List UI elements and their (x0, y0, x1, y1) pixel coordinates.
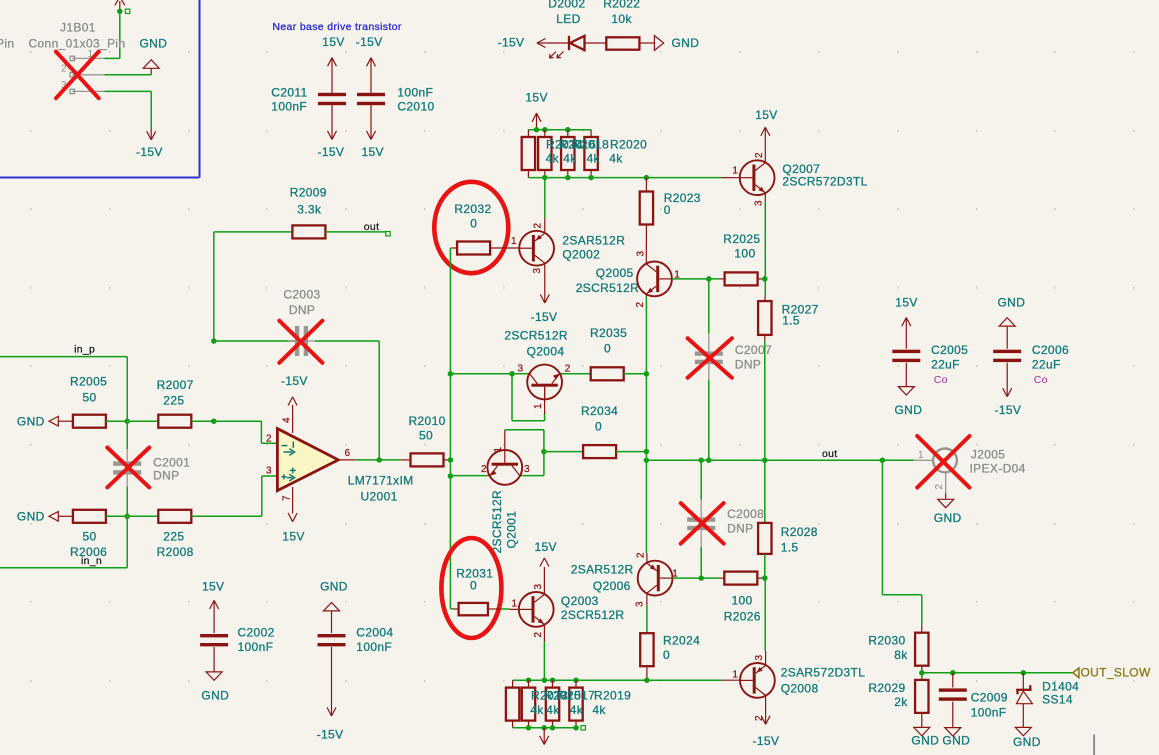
svg-text:6: 6 (345, 448, 351, 459)
svg-text:100: 100 (732, 594, 753, 608)
svg-text:2: 2 (481, 464, 487, 475)
svg-text:C2002: C2002 (238, 625, 275, 639)
svg-text:R2022: R2022 (603, 0, 640, 10)
junction (211, 338, 217, 344)
svg-text:4k: 4k (587, 151, 601, 165)
svg-text:C2007: C2007 (735, 343, 772, 357)
wire (450, 475, 487, 477)
-15V power symbol (136, 128, 163, 159)
svg-text:DNP: DNP (289, 303, 315, 317)
svg-text:1: 1 (493, 447, 504, 453)
DNP cross over J1B01 (56, 52, 99, 99)
transistor Q2003 (511, 584, 553, 642)
DNP cross over C2008 (681, 503, 724, 543)
svg-text:C2005: C2005 (931, 343, 968, 357)
svg-text:R2005: R2005 (70, 375, 107, 389)
svg-text:-15V: -15V (136, 145, 163, 159)
junction (698, 575, 704, 581)
svg-text:GND: GND (320, 579, 348, 593)
wire (105, 91, 152, 128)
junction (509, 371, 515, 377)
svg-text:2: 2 (635, 302, 646, 308)
svg-text:2: 2 (266, 434, 272, 445)
svg-text:R2026: R2026 (724, 610, 761, 624)
junction (541, 449, 547, 455)
resistor R2026 (719, 572, 765, 624)
resistor R2014 (522, 130, 535, 178)
wire (645, 460, 647, 553)
svg-text:R2035: R2035 (590, 326, 627, 340)
GND power symbol (540, 728, 549, 745)
labels Q2004 (504, 329, 568, 359)
power symbol top (clipped arrow) (115, 0, 125, 11)
resistor R2031 (450, 567, 518, 616)
-15V label (318, 145, 345, 159)
wire in_p (0, 357, 127, 422)
wire in_n (0, 516, 127, 568)
svg-text:1: 1 (918, 450, 924, 461)
svg-text:22uF: 22uF (1032, 358, 1061, 372)
junction (644, 371, 650, 377)
sheet border (0, 0, 200, 178)
svg-text:R2008: R2008 (157, 545, 194, 559)
svg-text:4k: 4k (530, 703, 544, 717)
labels Q2001 (490, 490, 519, 554)
junction (706, 276, 712, 282)
svg-text:225: 225 (163, 393, 184, 407)
transistor Q2004 (517, 364, 570, 415)
svg-text:J1B01: J1B01 (60, 21, 96, 35)
capacitor C2011 (271, 58, 346, 140)
svg-text:Q2002: Q2002 (562, 247, 600, 261)
svg-text:C2011: C2011 (271, 86, 307, 100)
svg-text:15V: 15V (322, 35, 344, 49)
junction (124, 514, 130, 520)
svg-text:50: 50 (419, 429, 433, 443)
wire bank bottom bus (513, 727, 579, 729)
wire (378, 341, 380, 460)
capacitor C2007 (DNP) (695, 334, 772, 460)
svg-text:C2010: C2010 (397, 100, 434, 114)
net anchor square (581, 726, 585, 730)
svg-text:1: 1 (732, 670, 738, 681)
labels Q2007 (782, 162, 867, 189)
svg-text:GND: GND (17, 414, 45, 428)
svg-text:1.5: 1.5 (781, 541, 799, 555)
capacitor C2003 (DNP) (283, 287, 379, 356)
resistor R2024 (640, 633, 700, 680)
svg-text:LM7171xIM: LM7171xIM (348, 474, 414, 488)
op-amp U2001 (266, 417, 351, 501)
resistor R2008 (157, 510, 194, 559)
wire (106, 420, 127, 422)
svg-text:GND: GND (201, 688, 229, 702)
svg-text:-15V: -15V (356, 35, 383, 49)
svg-text:in_n: in_n (81, 555, 102, 567)
transistor Q2002 (511, 218, 554, 281)
resistor R2032 (450, 202, 519, 255)
svg-text:0: 0 (595, 419, 602, 433)
labels Q2006 (571, 562, 634, 593)
svg-text:1: 1 (511, 236, 517, 247)
svg-text:GND: GND (911, 734, 939, 748)
svg-text:7: 7 (282, 495, 293, 501)
svg-text:100nF: 100nF (356, 640, 392, 654)
capacitor C2009 (939, 673, 1008, 748)
capacitor C2008 (DNP) (687, 460, 764, 578)
connector J1B01 labels (0, 21, 125, 51)
junction (762, 276, 768, 282)
svg-text:R2009: R2009 (290, 186, 327, 200)
svg-text:1: 1 (533, 403, 544, 409)
GND power symbol (17, 414, 73, 428)
junction (644, 457, 886, 463)
wire (214, 340, 295, 342)
svg-text:0: 0 (470, 217, 477, 231)
wire (882, 460, 921, 625)
labels Q2003 (561, 594, 625, 622)
resistor R2035 (562, 326, 646, 380)
svg-text:4: 4 (282, 417, 293, 423)
svg-text:D1404: D1404 (1042, 679, 1079, 693)
svg-text:R2020: R2020 (610, 138, 647, 152)
capacitor C2001 (DNP) (113, 421, 190, 516)
wire rail (449, 248, 451, 609)
wire rail (645, 297, 647, 461)
svg-text:4k: 4k (546, 703, 560, 717)
svg-text:2: 2 (533, 632, 544, 638)
resistor R2027 (758, 295, 819, 341)
svg-text:GND: GND (934, 511, 962, 525)
net label out (822, 448, 838, 460)
-15V power symbol (537, 39, 551, 48)
wire (764, 341, 766, 460)
wire out bus (646, 459, 914, 461)
svg-text:2: 2 (754, 152, 765, 158)
svg-text:C2001: C2001 (153, 455, 190, 469)
capacitor C2004 (317, 579, 394, 741)
svg-text:2SCR512R: 2SCR512R (576, 281, 640, 295)
junction (542, 175, 649, 181)
net anchor square (125, 9, 129, 13)
resistor R2016 (538, 130, 551, 178)
svg-text:IPEX-D04: IPEX-D04 (970, 461, 1026, 475)
junction (534, 127, 571, 133)
15V power symbol (535, 540, 557, 592)
LED D2002 (548, 0, 606, 58)
svg-text:in_p: in_p (74, 343, 95, 355)
svg-text:100nF: 100nF (971, 705, 1007, 719)
transistor Q2005 (635, 246, 680, 308)
wire bottom bus (528, 177, 739, 179)
svg-text:out: out (822, 448, 838, 460)
wire (512, 374, 545, 421)
svg-text:R2030: R2030 (868, 634, 905, 648)
wire (673, 577, 719, 579)
svg-text:D2002: D2002 (548, 0, 585, 10)
GND power symbol (639, 36, 699, 51)
wire bottom bus (513, 679, 740, 681)
resistor R2007 (157, 378, 194, 428)
svg-text:50: 50 (83, 530, 97, 544)
svg-text:R2018: R2018 (572, 138, 609, 152)
svg-text:1.5: 1.5 (782, 313, 800, 327)
svg-text:4k: 4k (609, 151, 623, 165)
svg-text:15V: 15V (202, 579, 224, 593)
junction (919, 670, 1026, 676)
svg-text:0: 0 (663, 648, 670, 662)
svg-text:3: 3 (636, 251, 647, 257)
svg-text:4k: 4k (563, 151, 577, 165)
-15V label (498, 36, 525, 50)
resistor R2017 (546, 680, 559, 728)
svg-text:GND: GND (1013, 735, 1041, 749)
svg-text:10k: 10k (611, 12, 632, 26)
resistor R2018 (561, 130, 574, 178)
junction (124, 418, 130, 424)
svg-text:Pin: Pin (0, 36, 14, 50)
wire (646, 606, 648, 634)
svg-text:15V: 15V (362, 145, 384, 159)
svg-text:2: 2 (636, 552, 647, 558)
svg-text:15V: 15V (755, 108, 777, 122)
wire (191, 476, 277, 516)
resistor R2019 (569, 680, 582, 728)
connector J2005 (DNP) (914, 448, 1026, 526)
GND power symbol (911, 727, 939, 747)
junction (526, 677, 650, 683)
svg-text:Co: Co (1034, 374, 1048, 386)
junction (211, 418, 217, 424)
svg-text:GND: GND (942, 734, 970, 748)
wire (191, 420, 261, 422)
wire (127, 420, 158, 422)
resistor R2015 (522, 680, 535, 728)
capacitor C2010 (357, 58, 435, 140)
transistor Q2007 (732, 143, 774, 207)
svg-text:0: 0 (664, 203, 671, 217)
-15V label (356, 35, 383, 49)
svg-text:-15V: -15V (531, 310, 558, 324)
DNP cross over C2001 (107, 448, 149, 488)
-15V power symbol (531, 282, 558, 324)
wire (764, 578, 766, 651)
15V power symbol (755, 108, 777, 143)
svg-text:Co: Co (934, 374, 948, 386)
wire (105, 74, 152, 76)
red ellipse annotation (434, 182, 508, 273)
resistor R2006 (70, 510, 107, 559)
wire (672, 278, 719, 280)
svg-text:2: 2 (934, 484, 945, 490)
svg-text:225: 225 (163, 530, 184, 544)
svg-text:15V: 15V (895, 296, 917, 310)
svg-text:-15V: -15V (498, 36, 525, 50)
wire (213, 232, 215, 341)
svg-text:50: 50 (83, 390, 97, 404)
15V power symbol (282, 487, 304, 543)
wire (450, 373, 527, 375)
svg-text:R2010: R2010 (409, 414, 446, 428)
svg-text:Q2001: Q2001 (505, 511, 519, 549)
resistor R2025 (719, 232, 765, 285)
svg-text:2SAR512R: 2SAR512R (571, 562, 634, 576)
svg-text:4k: 4k (592, 703, 606, 717)
wire top bus (528, 129, 591, 131)
svg-text:R2017: R2017 (558, 689, 595, 703)
resistor R2023 (640, 178, 701, 246)
bank labels (530, 689, 631, 718)
labels Q2002 (562, 234, 625, 262)
resistor R2022 (603, 0, 640, 50)
svg-text:GND: GND (998, 296, 1026, 310)
DNP cross over C2003 (279, 321, 322, 363)
labels Q2008 (781, 666, 866, 696)
svg-text:3.3k: 3.3k (297, 202, 322, 216)
wire (543, 642, 545, 680)
DNP cross over J2005 (917, 436, 969, 488)
svg-text:Q2003: Q2003 (561, 594, 599, 608)
svg-text:R2034: R2034 (581, 404, 618, 418)
svg-text:2SAR572D3TL: 2SAR572D3TL (781, 666, 866, 680)
page frame (1093, 735, 1095, 755)
svg-text:Conn_01x03_Pin: Conn_01x03_Pin (29, 36, 126, 50)
15V label (322, 35, 344, 49)
capacitor C2006 (993, 296, 1069, 418)
GND power symbol (140, 36, 168, 74)
pin 6 wire (338, 459, 400, 461)
svg-text:100nF: 100nF (238, 640, 274, 654)
resistor R2030 (868, 625, 928, 673)
wire (505, 430, 544, 476)
svg-text:Q2006: Q2006 (593, 579, 631, 593)
svg-text:100nF: 100nF (397, 86, 433, 100)
svg-text:C2006: C2006 (1032, 343, 1069, 357)
svg-text:OUT_SLOW: OUT_SLOW (1081, 665, 1151, 679)
wire OUT_SLOW bus (922, 672, 1073, 674)
hierarchical label OUT_SLOW (1073, 665, 1151, 679)
svg-text:3: 3 (266, 466, 272, 477)
svg-text:DNP: DNP (735, 358, 761, 372)
15V label (362, 145, 384, 159)
resistor R2029 (868, 673, 928, 728)
transistor Q2001 (481, 430, 530, 485)
junction (376, 457, 382, 463)
svg-text:GND: GND (895, 403, 923, 417)
note text (272, 21, 401, 33)
svg-text:3: 3 (532, 268, 543, 274)
junction (762, 575, 768, 581)
svg-text:R2028: R2028 (781, 525, 818, 539)
svg-text:U2001: U2001 (361, 489, 398, 503)
wire (105, 11, 120, 58)
svg-text:Near base drive transistor: Near base drive transistor (272, 21, 401, 33)
net label in_p (74, 343, 95, 355)
wire (106, 515, 127, 517)
svg-text:C2008: C2008 (727, 507, 764, 521)
svg-text:J2005: J2005 (971, 448, 1005, 462)
svg-text:-15V: -15V (318, 145, 345, 159)
wire (764, 202, 766, 295)
svg-text:C2003: C2003 (283, 287, 320, 301)
-15V power symbol (753, 710, 780, 748)
svg-text:15V: 15V (282, 529, 304, 543)
svg-text:3: 3 (524, 464, 530, 475)
junction (448, 371, 454, 479)
svg-text:SS14: SS14 (1042, 693, 1073, 707)
resistor R2034 (544, 404, 647, 458)
diode D1404 (schottky) (1013, 673, 1079, 749)
connector J1B01 pins (61, 49, 105, 93)
svg-text:-15V: -15V (317, 727, 344, 741)
svg-text:R2019: R2019 (594, 689, 631, 703)
node junction (117, 9, 123, 15)
svg-text:8k: 8k (894, 648, 908, 662)
svg-text:15V: 15V (535, 540, 557, 554)
capacitor C2005 (892, 296, 968, 418)
svg-text:100: 100 (734, 247, 755, 261)
transistor Q2006 (635, 552, 679, 607)
net label out (364, 221, 390, 236)
svg-text:2SCR512R: 2SCR512R (561, 608, 625, 622)
svg-text:Q2008: Q2008 (781, 681, 819, 695)
svg-text:DNP: DNP (727, 521, 753, 535)
svg-text:Q2005: Q2005 (596, 266, 634, 280)
grid dots (30, 51, 1135, 682)
svg-text:100nF: 100nF (271, 100, 307, 114)
resistor R2013 (506, 680, 519, 728)
svg-text:DNP: DNP (153, 469, 179, 483)
svg-text:R2032: R2032 (454, 202, 491, 216)
svg-text:-15V: -15V (995, 403, 1022, 417)
svg-text:3: 3 (533, 584, 544, 590)
red ellipse annotation (441, 538, 501, 638)
svg-text:2SAR512R: 2SAR512R (562, 234, 625, 248)
resistor R2020 (584, 130, 597, 178)
resistor R2009 (214, 186, 386, 239)
labels Q2005 (576, 266, 640, 295)
bank labels (546, 138, 648, 166)
svg-text:3: 3 (635, 601, 646, 607)
DNP cross over C2007 (688, 338, 732, 377)
resistor R2005 (70, 375, 107, 428)
junction (644, 449, 650, 455)
svg-text:2SCR512R: 2SCR512R (504, 329, 568, 343)
labels U2001 (348, 474, 414, 504)
svg-text:2SCR512R: 2SCR512R (490, 490, 504, 554)
svg-text:2k: 2k (894, 695, 908, 709)
svg-text:2: 2 (565, 364, 571, 375)
svg-text:22uF: 22uF (931, 358, 960, 372)
svg-text:2: 2 (533, 223, 544, 229)
svg-text:GND: GND (672, 36, 700, 50)
svg-text:3: 3 (754, 655, 765, 661)
svg-text:1: 1 (511, 599, 517, 610)
svg-text:2SCR572D3TL: 2SCR572D3TL (782, 175, 867, 189)
svg-text:0: 0 (604, 341, 611, 355)
junction (526, 725, 579, 731)
wire (214, 421, 278, 443)
svg-text:C2009: C2009 (971, 691, 1008, 705)
-15V power symbol (281, 374, 308, 433)
svg-text:4k: 4k (570, 703, 584, 717)
svg-text:3: 3 (517, 364, 523, 375)
svg-text:R2029: R2029 (868, 681, 905, 695)
resistor R2010 (400, 414, 450, 467)
svg-text:1: 1 (732, 166, 738, 177)
wire (544, 178, 546, 219)
svg-text:R2007: R2007 (157, 378, 194, 392)
